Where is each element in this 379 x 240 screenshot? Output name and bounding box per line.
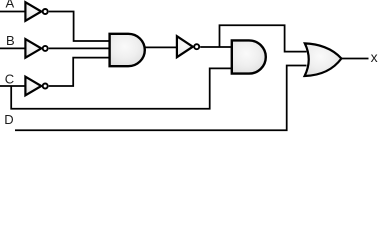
wire D across and up to OR bottom input [15,66,307,131]
wire C tap down and across to AND2 lower input [11,68,231,108]
inverter NOT4 after AND1 [177,36,199,57]
AND gate 1 (3-input) [110,34,145,66]
svg-text:x: x [371,49,378,65]
wire AND1 output to NOT4 [145,46,177,48]
wire NOT4 output into AND2 top input [200,46,231,48]
AND gate 2 (2-input) [232,40,266,73]
wire A input [0,11,26,13]
svg-text:D: D [4,112,13,127]
wire A' to corner and down into AND1 input 1 [49,12,110,42]
svg-text:A: A [6,0,15,11]
svg-text:B: B [6,33,15,48]
wire C' up into AND1 input 3 [49,58,110,86]
wire bypass tap up over AND2 to OR top input [220,25,307,51]
wire B' into AND1 input 2 [49,47,110,49]
OR gate [305,43,342,76]
inverter (NOT gate) for A [25,2,47,21]
wire B input [0,47,26,49]
wire OR output [342,58,369,60]
wire C input [0,85,26,87]
svg-text:C: C [5,71,14,86]
inverter (NOT gate) for C [25,77,47,96]
inverter (NOT gate) for B [25,39,47,58]
